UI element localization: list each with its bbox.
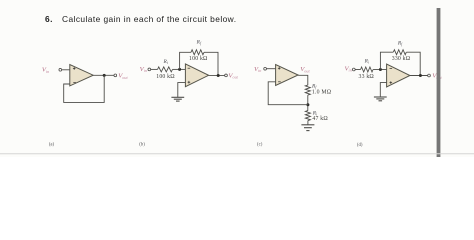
wire (d) Ri to op-amp (373, 69, 387, 71)
wire (b) Ri to op-amp (173, 68, 186, 70)
wire (a) noninverting input (62, 69, 70, 71)
faint page edge line (scan) (0, 153, 474, 155)
wire (b) feedback down to output (204, 52, 218, 75)
resistor Rf (d) (393, 50, 406, 55)
ground (d) (374, 96, 387, 98)
wire (b) noninverting input to ground (178, 83, 186, 98)
wire (c) output to divider (298, 75, 308, 85)
svg-text:100 kΩ: 100 kΩ (156, 74, 175, 80)
wire (d) feedback up (380, 52, 393, 69)
wire (b) feedback up (180, 52, 191, 69)
node (b) output junction (217, 74, 220, 77)
svg-text:(c): (c) (257, 143, 263, 148)
wire (d) input to Ri (355, 69, 360, 71)
wire (d) feedback down to output (406, 52, 420, 75)
wire (a) output (93, 74, 114, 76)
output terminal (b) (225, 74, 228, 77)
wire (b) input to Ri (151, 68, 158, 70)
wire (d) output (410, 75, 428, 77)
wire (d) noninverting input to ground (380, 83, 386, 97)
svg-text:33 kΩ: 33 kΩ (358, 74, 374, 80)
resistor Ri (c) (305, 111, 310, 121)
svg-text:330 kΩ: 330 kΩ (392, 56, 411, 62)
wire (c) noninverting input (266, 68, 275, 70)
resistor Ri (d) (361, 67, 374, 72)
page margin rule (scan) (437, 8, 441, 157)
svg-text:(d): (d) (357, 143, 363, 148)
node (b) inverting input junction (178, 68, 181, 71)
svg-text:100 kΩ: 100 kΩ (189, 56, 208, 62)
op-amp A4 (387, 64, 410, 87)
wire (b) output (209, 74, 225, 76)
node (d) inverting input junction (379, 68, 382, 71)
svg-text:(b): (b) (139, 143, 145, 148)
svg-text:(a): (a) (49, 143, 55, 148)
output terminal (a) (114, 74, 117, 77)
wire (c) Rf to junction (307, 95, 309, 111)
resistor Ri (b) (158, 67, 173, 72)
node (d) output junction (419, 74, 422, 77)
wire (c) feedback to inverting input (268, 82, 308, 105)
svg-text:1.0 MΩ: 1.0 MΩ (312, 90, 332, 96)
svg-text:6.Calculate gain in each of th: 6.Calculate gain in each of the circuit … (45, 14, 236, 24)
input terminal (d) (352, 68, 355, 71)
op-amp A1 (70, 65, 93, 86)
op-amp A2 (185, 64, 208, 87)
input terminal (a) (59, 68, 62, 71)
ground (b) (171, 96, 184, 98)
node (c) divider junction (306, 103, 309, 106)
wire (c) Ri to ground (307, 121, 309, 125)
node (a) output junction (103, 74, 106, 77)
input terminal (b) (148, 68, 151, 71)
output terminal (d) (428, 74, 431, 77)
input terminal (c) (264, 67, 267, 70)
resistor Rf (b) (191, 50, 204, 55)
resistor Rf (c) (305, 85, 310, 95)
ground (c) (301, 124, 314, 126)
svg-text:47 kΩ: 47 kΩ (312, 116, 328, 122)
wire (a) feedback loop (64, 75, 104, 102)
op-amp A3 (276, 65, 299, 86)
